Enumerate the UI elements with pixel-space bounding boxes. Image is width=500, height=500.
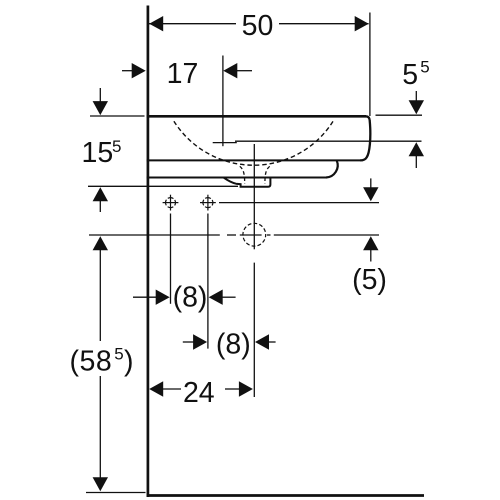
basin top surface — [147, 115, 367, 118]
basin lower tier curve — [326, 161, 338, 178]
fastening hole line reference — [219, 202, 379, 204]
dimension 17 — [122, 58, 252, 90]
floor — [147, 494, 424, 497]
tap hole centerline tick — [213, 142, 237, 144]
svg-text:(8): (8) — [173, 282, 208, 314]
trap outline — [224, 178, 271, 187]
drain funnel dashed left — [240, 166, 245, 184]
svg-text:50: 50 — [242, 10, 274, 42]
basin right edge — [360, 116, 370, 160]
trap bottom reference line — [88, 185, 238, 187]
hole right extension line — [207, 214, 209, 349]
dimension (8) second — [183, 329, 276, 361]
svg-text:5: 5 — [420, 58, 429, 77]
basin flange bottom — [147, 177, 327, 179]
5.5 reference line (tap axis extended) — [235, 140, 422, 142]
dimension (58.5) — [70, 236, 146, 492]
svg-text:(8): (8) — [216, 329, 251, 361]
dimension 24 — [149, 377, 253, 409]
svg-text:15: 15 — [82, 137, 114, 169]
rim top right tick — [376, 114, 423, 116]
svg-text:): ) — [124, 346, 134, 378]
svg-text:5: 5 — [114, 345, 123, 364]
tap hole centerline vertical — [222, 56, 224, 147]
hole left extension line — [170, 214, 172, 304]
wall — [147, 6, 150, 498]
drain hole dashed circle — [243, 223, 266, 246]
basin body bottom line — [147, 159, 362, 161]
dimension 15.5 — [82, 88, 122, 212]
svg-text:24: 24 — [183, 377, 215, 409]
fastening hole right — [200, 195, 216, 211]
rim top left tick — [90, 115, 145, 117]
drain axis reference line — [89, 234, 379, 236]
svg-text:(5): (5) — [352, 264, 387, 296]
fastening hole left — [163, 195, 179, 211]
dimension 5.5 — [402, 58, 429, 168]
dimension 50 — [149, 10, 370, 116]
svg-text:(58: (58 — [70, 346, 113, 378]
drain funnel dashed right — [265, 166, 270, 184]
dimension (8) first — [133, 282, 236, 314]
svg-text:17: 17 — [167, 58, 199, 90]
dimension (5) — [352, 178, 387, 296]
drain centerline vertical — [253, 144, 255, 397]
svg-text:5: 5 — [112, 137, 121, 156]
svg-text:5: 5 — [402, 59, 418, 91]
bowl dashed curve — [174, 121, 333, 165]
